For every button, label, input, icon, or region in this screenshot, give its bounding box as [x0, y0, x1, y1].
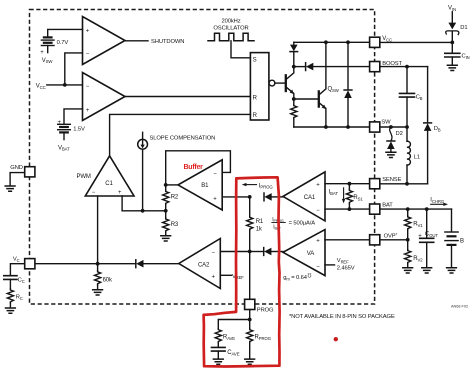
svg-text:RPROG: RPROG	[255, 335, 272, 341]
node SW-D2 junction	[389, 125, 393, 129]
wire B1 output	[166, 184, 178, 186]
svg-text:ICHRG: ICHRG	[430, 198, 445, 204]
svg-text:GND: GND	[10, 165, 23, 171]
svg-text:COUT: COUT	[425, 232, 438, 238]
node top rail junction 2	[346, 40, 350, 44]
resistor R1 1k	[247, 197, 264, 252]
svg-text:SW: SW	[381, 119, 391, 125]
node R1 top junction	[248, 195, 252, 199]
svg-text:RV1: RV1	[413, 222, 423, 228]
node BAT-COUT junction	[425, 207, 429, 211]
svg-text:IPROG: IPROG	[259, 183, 274, 189]
battery 0.7V (VSW reference)	[40, 37, 54, 56]
svg-text:PWM: PWM	[77, 174, 91, 180]
wire comp1 minus to VCC node	[65, 53, 83, 85]
node R1 bottom junction	[248, 250, 252, 254]
svg-text:L1: L1	[414, 155, 420, 161]
svg-text:CA2: CA2	[198, 262, 210, 268]
resistor RC	[7, 289, 23, 308]
battery 1.5V (VBAT reference)	[58, 120, 71, 140]
IC boundary dashed box	[30, 10, 375, 305]
node SW rail junction 2	[346, 125, 350, 129]
svg-text:OSCILLATOR: OSCILLATOR	[213, 25, 248, 31]
svg-text:RAVE: RAVE	[223, 335, 235, 341]
wire VA plus to OVP	[325, 239, 370, 241]
node PROG junction	[248, 318, 252, 322]
svg-text:Ω: Ω	[307, 272, 311, 278]
pin GND	[10, 165, 35, 177]
current source slope compensation	[138, 132, 148, 149]
wire OVP pin to divider junction	[380, 239, 408, 241]
svg-text:CA1: CA1	[304, 195, 316, 201]
label current gain formula	[272, 217, 315, 231]
svg-text:AN68 F02: AN68 F02	[451, 304, 468, 308]
svg-text:= 500µA/A: = 500µA/A	[289, 221, 316, 227]
wire BAT external rail	[380, 208, 452, 210]
node slope comp junction	[141, 209, 145, 213]
node 60k junction	[96, 262, 100, 266]
svg-text:VBAT: VBAT	[58, 145, 70, 151]
inductor L1	[407, 127, 420, 184]
svg-text:R1: R1	[256, 219, 264, 225]
wire VCC input line	[47, 84, 83, 86]
node R2 bottom junction	[164, 209, 168, 213]
resistor RV2	[405, 240, 424, 268]
ground below R3	[161, 236, 171, 241]
wire GND pin to ground	[10, 173, 25, 186]
node boost junction	[292, 65, 296, 69]
op-amp comparator (shutdown)	[83, 17, 126, 65]
svg-text:200kHz: 200kHz	[221, 19, 240, 25]
latch output inverter bubble	[269, 80, 275, 86]
pin PROG	[245, 299, 274, 313]
node B1 output junction	[164, 183, 168, 187]
node SW-L1 junction	[405, 125, 409, 129]
ground (GND pin)	[5, 186, 15, 191]
node OVP junction	[406, 238, 410, 242]
pin OVP	[370, 232, 398, 245]
pin VCC	[370, 36, 392, 48]
resistor (QSW base bleed)	[291, 99, 297, 127]
pin BAT	[370, 203, 394, 215]
svg-text:60k: 60k	[103, 277, 113, 283]
wire C1 plus input to slope/R2 node	[122, 196, 166, 211]
ground below D2	[386, 152, 396, 157]
svg-text:OVP*: OVP*	[384, 232, 398, 240]
svg-text:QSW: QSW	[328, 87, 340, 93]
svg-text:*NOT AVAILABLE IN 8-PIN SO PAC: *NOT AVAILABLE IN 8-PIN SO PACKAGE	[289, 314, 395, 320]
svg-text:VA: VA	[307, 251, 314, 257]
svg-text:VREF: VREF	[337, 258, 349, 264]
pin SW	[370, 119, 392, 132]
diode CA2 output	[136, 260, 144, 268]
annotation IPROG arrow	[242, 183, 274, 190]
svg-text:Buffer: Buffer	[184, 164, 204, 171]
wire B1 feedback loop	[166, 151, 231, 185]
diode (driver clamp, down)	[290, 42, 298, 66]
ground below RV2	[403, 268, 413, 273]
wire C1 output to latch R2	[110, 114, 251, 155]
svg-text:C1: C1	[105, 181, 113, 187]
resistor R2	[163, 185, 179, 211]
diode (QSW clamp, up)	[344, 42, 352, 127]
capacitor CC	[4, 276, 25, 289]
wire PROG vertical	[249, 252, 251, 300]
op-amp CA2	[179, 239, 221, 289]
resistor RV1	[405, 209, 424, 240]
oscillator clock waveform	[208, 33, 254, 41]
svg-text:VC: VC	[13, 257, 20, 263]
svg-text:R2: R2	[171, 195, 179, 201]
wire comp2 output to latch R	[125, 96, 250, 98]
svg-text:D1: D1	[460, 25, 467, 31]
wire VA minus to VREF	[325, 264, 335, 266]
wire PROG pin down to RAVE/RPROG	[249, 310, 251, 320]
wire slope comp source down	[142, 149, 144, 211]
svg-text:IBAT: IBAT	[329, 190, 339, 196]
svg-text:2.465V: 2.465V	[337, 266, 355, 272]
wire comp2 plus input	[64, 109, 83, 124]
wire B1 plus input to R1 node	[222, 196, 250, 198]
svg-text:BAT: BAT	[382, 203, 393, 209]
capacitor COUT	[418, 209, 438, 267]
ground below 60k	[93, 290, 103, 295]
wire comp1 plus input	[48, 29, 83, 37]
node SW rail junction 1	[324, 125, 328, 129]
resistor RS1	[346, 184, 363, 209]
svg-text:R3: R3	[171, 222, 179, 228]
wire QSW base	[294, 98, 319, 100]
diode D1	[446, 12, 468, 43]
wire PROG node to RAVE	[218, 320, 249, 329]
svg-text:RS1: RS1	[353, 195, 363, 201]
annotation ICHRG arrow	[430, 198, 448, 206]
wire latch output to Q1 base	[275, 82, 286, 84]
ground below CIN	[447, 65, 457, 70]
node VIN junction	[450, 41, 454, 45]
svg-text:SHUTDOWN: SHUTDOWN	[151, 39, 184, 45]
svg-text:RC: RC	[16, 295, 23, 301]
svg-text:S: S	[253, 58, 257, 64]
wire oscillator to latch S input	[231, 41, 250, 58]
ground below COUT	[422, 268, 432, 273]
svg-text:1.5V: 1.5V	[73, 127, 85, 133]
diode (boost feed, left)	[294, 63, 370, 71]
node Q1 emitter junction	[292, 97, 296, 101]
wire CA2 plus to VREF	[220, 274, 231, 276]
svg-text:CC: CC	[18, 278, 25, 284]
resistor R3	[163, 211, 179, 236]
annotation IBAT arrow	[329, 188, 346, 204]
svg-text:0.7V: 0.7V	[57, 40, 69, 46]
node VCC junction	[63, 83, 67, 87]
wire C1 minus input down to VC node	[97, 196, 99, 264]
wire CA2 minus to R1 bottom node	[220, 251, 249, 253]
op-amp VA (voltage amp)	[283, 230, 325, 276]
svg-text:SENSE: SENSE	[382, 177, 401, 183]
op-amp comparator (battery present)	[83, 73, 126, 121]
capacitor CIN	[445, 42, 470, 65]
svg-text:VSW: VSW	[42, 58, 54, 64]
node BAT-RV1 junction	[406, 207, 410, 211]
capacitor CB	[400, 67, 423, 127]
wire shutdown output	[125, 40, 148, 42]
ground below RPROG	[245, 359, 255, 364]
wire VCC to VIN node	[380, 41, 453, 43]
svg-text:D2: D2	[396, 131, 403, 137]
svg-text:VCC: VCC	[382, 36, 392, 42]
diode VA output	[250, 248, 283, 256]
pin BOOST	[370, 61, 403, 72]
ground below RC	[5, 308, 15, 313]
transistor Q1 (driver)	[286, 67, 294, 99]
ground below battery B	[447, 268, 457, 273]
svg-text:CIN: CIN	[462, 54, 470, 60]
wire top VCC rail	[294, 41, 370, 43]
wire CA1 plus to SENSE	[325, 183, 370, 185]
diode D2	[387, 127, 403, 152]
wire SENSE external	[380, 183, 428, 185]
svg-text:PROG: PROG	[257, 307, 274, 313]
svg-text:CAVE: CAVE	[227, 350, 239, 356]
red dot mark	[334, 337, 338, 341]
pin VC	[13, 257, 35, 269]
capacitor CAVE	[212, 347, 240, 358]
svg-text:CB: CB	[416, 95, 423, 101]
transistor QSW	[319, 42, 340, 127]
wire SW rail	[294, 126, 370, 128]
svg-text:B1: B1	[201, 183, 209, 189]
wire BOOST to DB corner	[380, 66, 428, 68]
svg-text:VIN: VIN	[448, 5, 456, 11]
pin SENSE	[370, 177, 402, 189]
wire CA1 minus to BAT	[325, 208, 370, 210]
wire VC pin to CC	[10, 264, 24, 276]
node RS1 bottom	[348, 207, 352, 211]
svg-text:SLOPE COMPENSATION: SLOPE COMPENSATION	[150, 136, 216, 142]
ground below CAVE	[213, 359, 223, 364]
latch U1 (S R R)	[250, 53, 269, 120]
buffer B1	[178, 160, 222, 210]
svg-text:DB: DB	[434, 126, 441, 132]
resistor 60k	[95, 264, 113, 290]
resistor RPROG	[247, 320, 272, 359]
wire VC line to CA2 apex	[35, 263, 179, 265]
svg-text:RV2: RV2	[413, 256, 423, 262]
label gm value	[283, 272, 311, 282]
node CB junction	[405, 65, 409, 69]
svg-text:B: B	[460, 239, 464, 245]
node SENSE-L1 junction	[405, 182, 409, 186]
battery B	[445, 209, 464, 267]
diode CA1 output	[264, 193, 283, 201]
resistor RAVE	[215, 329, 235, 348]
svg-text:gm = 0.64: gm = 0.64	[283, 275, 308, 281]
node RS1 top	[348, 182, 352, 186]
red annotation box	[204, 177, 280, 366]
node top rail junction 1	[324, 40, 328, 44]
diode DB	[424, 67, 441, 184]
svg-text:VREF: VREF	[232, 274, 244, 280]
svg-text:VCC: VCC	[36, 83, 46, 89]
wire SW external	[380, 126, 407, 128]
comparator C1 (PWM)	[85, 156, 134, 196]
op-amp CA1	[283, 172, 325, 221]
